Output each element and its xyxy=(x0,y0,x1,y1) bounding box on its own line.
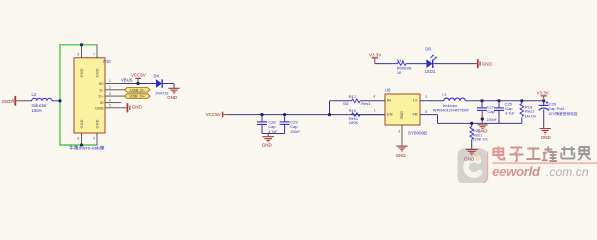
svg-text:1: 1 xyxy=(374,109,376,113)
svg-text:4.7uF: 4.7uF xyxy=(505,112,515,116)
svg-text:P10: P10 xyxy=(103,59,111,64)
pin 2 D- xyxy=(99,86,124,93)
pin 3 D+ xyxy=(99,92,125,99)
node junction C29 xyxy=(283,113,286,116)
ground GND below C26 xyxy=(540,129,552,140)
node junction VCC5V/VBUS xyxy=(136,82,139,85)
svg-text:牛角micro-usb座: 牛角micro-usb座 xyxy=(69,144,105,151)
svg-text:GND: GND xyxy=(482,61,493,66)
wire green shield net vertical xyxy=(59,45,61,145)
svg-text:2: 2 xyxy=(109,86,111,90)
svg-text:GND: GND xyxy=(464,157,475,162)
svg-text:GND: GND xyxy=(541,135,552,140)
svg-text:D6: D6 xyxy=(425,46,431,51)
wire L2 to green net xyxy=(52,100,60,102)
svg-text:VBUS: VBUS xyxy=(121,77,133,82)
svg-text:Cap: Cap xyxy=(290,124,298,129)
svg-text:GND: GND xyxy=(94,69,99,78)
svg-text:1K: 1K xyxy=(397,70,402,75)
svg-text:LX: LX xyxy=(413,98,418,103)
ground GND below C28/C29 xyxy=(262,134,274,148)
svg-text:V3.3V: V3.3V xyxy=(369,53,381,58)
pin 6 shield top-left xyxy=(78,45,84,78)
capacitor C29 xyxy=(280,115,302,134)
svg-text:100nF: 100nF xyxy=(290,130,301,134)
svg-text:100K: 100K xyxy=(349,120,359,125)
connector P10 micro-usb body xyxy=(74,58,111,133)
svg-text:9: 9 xyxy=(93,137,95,141)
ground GND power port at pin 5 xyxy=(124,103,143,112)
svg-text:6: 6 xyxy=(78,53,80,57)
svg-text:GND: GND xyxy=(95,105,104,110)
wire V3.3V to R16 xyxy=(375,63,398,65)
net label VBUS xyxy=(121,77,133,82)
svg-text:7: 7 xyxy=(93,53,95,57)
wire VBUS to D4 xyxy=(121,83,156,85)
svg-text:10uH: 10uH xyxy=(32,108,42,113)
svg-text:VCC5V: VCC5V xyxy=(131,73,146,78)
svg-text:D+: D+ xyxy=(99,94,105,99)
watermark text 电子工程世界 (drawn strokes) xyxy=(493,147,591,162)
svg-text:VCC5V: VCC5V xyxy=(206,112,221,117)
svg-text:107/陶瓷型钽电容: 107/陶瓷型钽电容 xyxy=(548,111,578,116)
svg-text:LED1: LED1 xyxy=(425,69,436,74)
pin 9 shield bottom-right xyxy=(93,120,99,146)
svg-text:L2: L2 xyxy=(32,92,37,97)
svg-text:IN: IN xyxy=(387,98,391,103)
ground GND on FB rail xyxy=(478,125,489,134)
svg-text:V3.3V: V3.3V xyxy=(537,91,549,96)
ground GND power port (left of L2) xyxy=(2,96,25,106)
node junction C26 top xyxy=(542,99,545,102)
svg-text:1M 1%: 1M 1% xyxy=(525,114,537,118)
power port VCC5V (at VBUS) xyxy=(131,73,146,84)
node junction R17/R19 split xyxy=(328,113,331,116)
capacitor C25 4.7uF xyxy=(494,101,515,124)
wire output rail xyxy=(465,100,543,102)
svg-text:USB_D+: USB_D+ xyxy=(129,94,145,99)
svg-text:0Ω: 0Ω xyxy=(343,101,348,106)
svg-text:Res1: Res1 xyxy=(525,109,535,114)
node junction on C27 lead xyxy=(481,117,484,120)
svg-text:Res1: Res1 xyxy=(361,101,371,106)
capacitor C26 polarized xyxy=(539,101,578,128)
svg-text:GND: GND xyxy=(94,120,99,129)
svg-text:2: 2 xyxy=(425,95,427,99)
svg-text:3: 3 xyxy=(109,92,111,96)
resistor R17 0R xyxy=(343,94,371,106)
svg-text:GND: GND xyxy=(2,99,13,104)
node junction C25 top xyxy=(497,99,500,102)
pin 4 ID xyxy=(100,98,121,105)
svg-text:5: 5 xyxy=(425,110,427,114)
comment 牛角micro-usb座 xyxy=(69,144,105,151)
svg-text:L1: L1 xyxy=(442,92,447,97)
port USB_D- xyxy=(125,87,151,92)
svg-text:WPN4012H4R75MT: WPN4012H4R75MT xyxy=(433,107,470,112)
svg-text:U6: U6 xyxy=(385,88,391,93)
svg-text:GND: GND xyxy=(132,105,143,110)
wire GND to L2 xyxy=(24,100,32,102)
svg-text:D-: D- xyxy=(99,87,104,92)
wire U6 GND pin3 xyxy=(398,125,402,146)
ground GND power port (LED branch) xyxy=(475,59,493,68)
port USB_D+ xyxy=(125,94,151,99)
node junction R18 top xyxy=(520,99,523,102)
ground GND below U6 xyxy=(396,146,408,158)
capacitor C27 100nF xyxy=(477,101,498,124)
wire D4 to ground xyxy=(163,84,174,88)
wire FB rail xyxy=(438,122,522,124)
pin 7 shield top-right xyxy=(93,45,99,78)
watermark eeworld.com.cn xyxy=(492,164,589,179)
wire R19 to U6 pin1 xyxy=(360,109,385,115)
wire branch up to R17 xyxy=(330,101,352,115)
inductor L1 WPN4012H4R7MT xyxy=(433,92,470,113)
svg-text:D4: D4 xyxy=(154,73,160,78)
resistor R16 1K xyxy=(397,58,412,75)
svg-text:8: 8 xyxy=(78,137,80,141)
svg-text:eeworld: eeworld xyxy=(492,164,541,179)
power port V3.3V (LED branch) xyxy=(369,53,381,64)
pin 1 VBUS xyxy=(99,79,121,86)
svg-text:5V: 5V xyxy=(99,81,104,86)
resistor R19 100K xyxy=(349,108,360,125)
resistor R20 220K xyxy=(470,123,488,148)
wire D6 to GND xyxy=(433,63,474,65)
node junction C27 top xyxy=(480,99,483,102)
node junction shield top xyxy=(80,43,83,46)
svg-text:1: 1 xyxy=(109,79,111,83)
svg-text:FB: FB xyxy=(412,112,417,117)
svg-text:4: 4 xyxy=(109,98,111,102)
svg-text:Cap Pol1: Cap Pol1 xyxy=(548,106,565,111)
svg-text:3: 3 xyxy=(398,130,400,134)
svg-text:Cap: Cap xyxy=(505,106,513,111)
svg-text:R17: R17 xyxy=(349,94,357,99)
svg-text:GND: GND xyxy=(167,95,178,100)
wire green shield net top xyxy=(59,44,97,46)
wire U6 FB pin5 jog xyxy=(420,110,438,123)
svg-text:220K 1%: 220K 1% xyxy=(473,138,489,142)
svg-text:5: 5 xyxy=(109,104,111,108)
watermark logo gray square xyxy=(458,148,488,184)
svg-text:Cap: Cap xyxy=(268,124,276,129)
svg-text:.com.cn: .com.cn xyxy=(546,165,589,179)
LED D6 LED1 xyxy=(425,46,437,74)
wire VCC5V rail xyxy=(229,114,385,116)
svg-text:GND: GND xyxy=(400,111,404,120)
node junction C28 xyxy=(260,113,263,116)
diode D4 1N4733 xyxy=(154,73,169,95)
power port VCC5V (input rail) xyxy=(206,112,229,118)
wire U6 LX pin2 to L1 xyxy=(420,95,444,101)
svg-text:GND: GND xyxy=(262,143,273,148)
svg-text:4: 4 xyxy=(373,95,375,99)
capacitor C28 xyxy=(257,115,278,134)
inductor L2 10uH xyxy=(32,92,53,113)
svg-text:R19: R19 xyxy=(349,108,357,113)
op-amp U6 SY8009B regulator body xyxy=(385,88,427,136)
svg-text:GND: GND xyxy=(79,69,84,78)
svg-text:GND: GND xyxy=(396,153,407,158)
wire R16 to D6 xyxy=(406,63,426,65)
wire R17 to U6 pin4 xyxy=(360,95,385,101)
pin 5 GND xyxy=(95,104,124,111)
node junction R20 tap xyxy=(470,122,473,125)
svg-text:100nF: 100nF xyxy=(487,118,498,122)
svg-text:USB_D-: USB_D- xyxy=(130,87,145,92)
pin 8 shield bottom-left xyxy=(78,120,84,146)
power port V3.3V output xyxy=(537,91,549,101)
node junction shield bottom xyxy=(80,143,83,146)
node junction L2/shield xyxy=(58,99,61,102)
ground GND symbol at D4 xyxy=(167,88,179,100)
wire green shield net bottom xyxy=(59,144,97,146)
ground GND below R20 xyxy=(464,149,477,161)
svg-text:SY8009B: SY8009B xyxy=(408,130,427,135)
resistor R18 1M xyxy=(520,101,537,124)
svg-text:EN: EN xyxy=(387,112,393,117)
wire joining C28/C29 bottoms xyxy=(262,133,285,135)
watermark pink underline xyxy=(493,162,597,164)
svg-text:GND: GND xyxy=(79,120,84,129)
